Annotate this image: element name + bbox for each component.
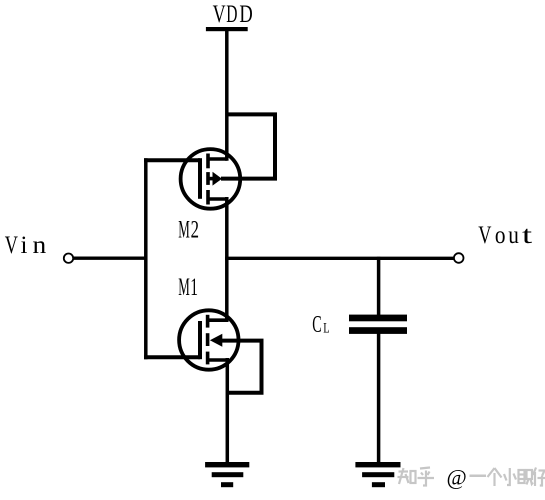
svg-text:V: V bbox=[5, 231, 18, 258]
svg-text:C: C bbox=[312, 311, 321, 338]
wire gate rail vertical (Vin net) bbox=[144, 158, 148, 359]
transistor M1 (NMOS) bbox=[179, 310, 238, 369]
wire Vout node to CL bbox=[377, 257, 381, 316]
net VDD label bbox=[213, 0, 253, 28]
svg-text:D: D bbox=[226, 0, 237, 28]
svg-text:L: L bbox=[323, 320, 329, 336]
svg-text:i: i bbox=[21, 232, 28, 259]
terminal Vin bbox=[64, 254, 73, 263]
wire M1 source to ground bbox=[226, 358, 230, 463]
svg-text:V: V bbox=[478, 221, 491, 248]
transistor M2 (PMOS) bbox=[181, 149, 241, 209]
char ge bbox=[488, 468, 495, 477]
svg-text:n: n bbox=[33, 231, 47, 259]
wire rail to M2 gate bbox=[144, 158, 200, 162]
wire Vout bbox=[225, 257, 454, 260]
svg-text:o: o bbox=[495, 221, 506, 249]
power rail VDD bar bbox=[206, 27, 248, 31]
ground (right) bbox=[355, 462, 400, 487]
svg-text:V: V bbox=[213, 0, 226, 28]
ground (left) bbox=[205, 462, 249, 487]
label M1 bbox=[178, 273, 198, 301]
char yi bbox=[470, 475, 487, 478]
svg-text:@: @ bbox=[447, 465, 467, 490]
wire M2 source to M1 drain bbox=[225, 197, 229, 322]
capacitor CL plates bbox=[349, 315, 407, 334]
svg-text:u: u bbox=[508, 221, 519, 249]
wire Vin to gate rail bbox=[74, 257, 147, 260]
wire M2 bulk-source loop bbox=[221, 114, 275, 178]
svg-text:t: t bbox=[522, 221, 532, 249]
label Vout bbox=[478, 221, 532, 250]
wire VDD vertical to M2 drain bbox=[225, 30, 229, 161]
label Vin bbox=[5, 231, 46, 259]
char hu bbox=[420, 468, 430, 469]
wire CL to ground bbox=[377, 334, 381, 464]
label M2 bbox=[178, 215, 199, 244]
svg-text:M: M bbox=[178, 216, 190, 244]
svg-text:2: 2 bbox=[191, 215, 199, 243]
watermark 知乎 @一个小靓仔 bbox=[398, 465, 545, 490]
svg-text:1: 1 bbox=[190, 273, 198, 301]
wire M1 bulk-source loop bbox=[222, 341, 262, 393]
char zhi bbox=[399, 470, 409, 472]
terminal Vout bbox=[454, 253, 464, 263]
svg-text:M: M bbox=[178, 274, 190, 302]
char zai bbox=[533, 468, 536, 476]
char liang bbox=[519, 470, 525, 483]
wire rail to M1 gate bbox=[144, 355, 200, 359]
char xiao bbox=[507, 468, 510, 485]
svg-text:D: D bbox=[239, 0, 252, 27]
